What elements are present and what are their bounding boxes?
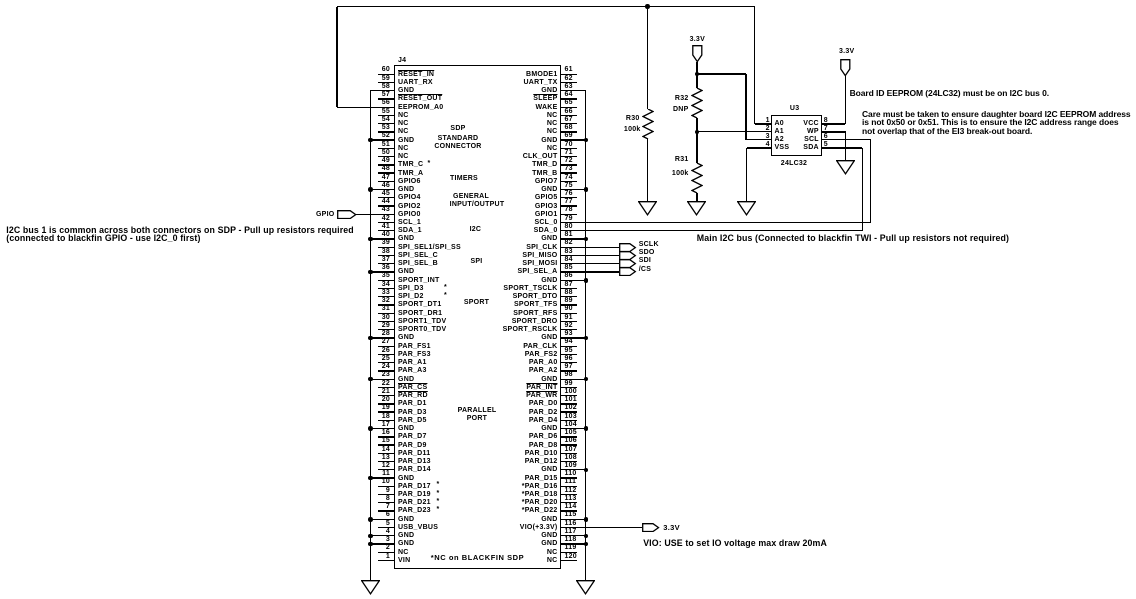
J4 pin 82 SPI_CLK bbox=[561, 247, 619, 248]
U3 pin 1 A0 bbox=[766, 117, 770, 124]
wire GPIO to pin 43 bbox=[356, 214, 395, 215]
J4 pin 54 NC bbox=[378, 123, 394, 124]
wire right GND bus vertical bbox=[585, 91, 586, 581]
J4 pin 93 GND bbox=[561, 337, 586, 338]
J4 pin 103 PAR_D4 bbox=[561, 420, 578, 421]
J4 pin 76 GPIO5 bbox=[561, 197, 578, 198]
junction 3.3V / R32 / A2 bbox=[695, 72, 700, 77]
J4 pin 70 NC bbox=[561, 148, 578, 149]
U3 pin 3 A2 bbox=[766, 133, 770, 140]
J4 pin 38 SPI_SEL_C bbox=[378, 255, 394, 256]
J4 pin 28 GND bbox=[370, 337, 394, 338]
junction top wire / R30 bbox=[645, 4, 650, 9]
note I2C bus 1 bbox=[6, 226, 353, 243]
J4 pin 5 USB_VBUS bbox=[378, 527, 394, 528]
label R31 bbox=[675, 156, 689, 163]
J4 pin 83 SPI_MISO bbox=[561, 255, 619, 256]
wire 3.3V down to VCC bbox=[845, 76, 846, 124]
J4 pin 49 TMR_C bbox=[378, 164, 394, 165]
wire junction to U3 pin 2 A1 bbox=[697, 131, 771, 132]
J4 pin 29 SPORT0_TDV bbox=[378, 329, 394, 330]
J4 pin 13 PAR_D13 bbox=[378, 461, 394, 462]
wire EEPROM_A0 to J4 pin 56 bbox=[337, 107, 395, 108]
J4 pin 113 *PAR_D20 bbox=[561, 502, 578, 503]
wire to U3 pin 1 A0 bbox=[755, 123, 771, 124]
J4 pin 10 PAR_D17 bbox=[378, 486, 394, 487]
J4 pin 26 PAR_FS3 bbox=[378, 354, 394, 355]
J4 pin 96 PAR_A0 bbox=[561, 362, 578, 363]
J4 pin 1 VIN bbox=[378, 560, 394, 561]
J4 pin 106 PAR_D8 bbox=[561, 444, 578, 445]
resistor R30 bbox=[642, 109, 654, 139]
J4 pin 95 PAR_FS2 bbox=[561, 354, 578, 355]
refdes U3 bbox=[790, 105, 799, 112]
J4 pin 109 GND bbox=[561, 469, 586, 470]
resistor R31 bbox=[691, 163, 703, 193]
J4 pin 64 SLEEP bbox=[561, 98, 578, 99]
J4 pin 27 PAR_FS1 bbox=[378, 346, 394, 347]
junction left GND bus pin 11 bbox=[368, 476, 373, 481]
J4 pin 85 SPI_SEL_A bbox=[561, 271, 619, 272]
J4 pin 99 PAR_INT bbox=[561, 387, 578, 388]
J4 pin 35 SPORT_INT bbox=[378, 280, 394, 281]
junction right GND bus pin 115 bbox=[584, 517, 589, 522]
wire A2 vertical bbox=[745, 74, 746, 140]
wire R31 top bbox=[696, 132, 697, 163]
J4 pin 6 GND bbox=[370, 519, 394, 520]
J4 pin 84 SPI_MOSI bbox=[561, 263, 619, 264]
J4 pin 111 *PAR_D16 bbox=[561, 486, 578, 487]
J4 pin 41 SDA_1 bbox=[378, 230, 394, 231]
J4 pin 90 SPORT_RFS bbox=[561, 313, 578, 314]
junction right GND bus pin 98 bbox=[584, 377, 589, 382]
J4 pin 20 PAR_D1 bbox=[378, 403, 394, 404]
label GENERAL INPUT/OUTPUT bbox=[391, 193, 551, 200]
ground WP bbox=[836, 160, 855, 175]
wire R30 top bbox=[647, 7, 648, 109]
note VIO bbox=[643, 539, 827, 547]
junction right GND bus pin 69 bbox=[584, 138, 589, 143]
J4 pin 77 GPIO3 bbox=[561, 205, 578, 206]
J4 pin 16 PAR_D7 bbox=[378, 436, 394, 437]
J4 pin 15 PAR_D9 bbox=[378, 444, 394, 445]
connector J4 body bbox=[394, 65, 562, 569]
ground VSS bbox=[737, 201, 756, 216]
J4 pin 17 GND bbox=[370, 428, 394, 429]
J4 pin 86 GND bbox=[561, 280, 586, 281]
wire left GND bus vertical bbox=[370, 91, 371, 581]
J4 pin 120 NC bbox=[561, 560, 578, 561]
wire WP down bbox=[845, 132, 846, 161]
port SDO bbox=[619, 251, 637, 260]
J4 pin 47 GPIO6 bbox=[378, 181, 394, 182]
J4 pin 94 PAR_CLK bbox=[561, 346, 578, 347]
label SPORT bbox=[397, 299, 557, 306]
junction right GND bus pin 81 bbox=[584, 237, 589, 242]
note Care must be taken bbox=[862, 110, 1131, 135]
wire R32 top bbox=[696, 74, 697, 88]
J4 pin 97 PAR_A2 bbox=[561, 370, 578, 371]
J4 pin 60 RESET_IN bbox=[378, 74, 394, 75]
junction left GND bus pin 3 bbox=[368, 542, 373, 547]
J4 pin 57 RESET_OUT bbox=[378, 98, 394, 99]
J4 pin 69 GND bbox=[561, 139, 586, 140]
J4 pin 98 GND bbox=[561, 379, 586, 380]
port SCLK bbox=[619, 243, 637, 252]
junction left GND bus pin 4 bbox=[368, 534, 373, 539]
U3 pin 7 WP bbox=[824, 125, 828, 132]
J4 pin 11 GND bbox=[370, 477, 394, 478]
ground R30 bbox=[638, 201, 657, 216]
ground right bus bbox=[576, 580, 595, 595]
J4 pin 100 PAR_WR bbox=[561, 395, 578, 396]
refdes J4 bbox=[398, 57, 406, 64]
J4 pin 9 PAR_D19 bbox=[378, 494, 394, 495]
J4 pin 46 GND bbox=[370, 189, 394, 190]
wire SDA down bbox=[862, 148, 863, 231]
wire VCC bbox=[822, 123, 846, 124]
wire R30 bottom bbox=[647, 139, 648, 202]
wire EEPROM_A0 vertical left bbox=[336, 7, 337, 108]
J4 pin 75 GND bbox=[561, 189, 586, 190]
J4 pin 91 SPORT_DRO bbox=[561, 321, 578, 322]
U3 pin 2 A1 bbox=[766, 125, 770, 132]
J4 pin 66 NC bbox=[561, 115, 578, 116]
label R32 bbox=[675, 95, 689, 102]
J4 pin 62 UART_TX bbox=[561, 82, 578, 83]
J4 pin 101 PAR_D0 bbox=[561, 403, 578, 404]
label 24LC32 bbox=[781, 160, 807, 167]
U3 pin 6 SCL bbox=[824, 133, 828, 140]
J4 pin 8 PAR_D21 bbox=[378, 502, 394, 503]
wire WP bbox=[822, 131, 846, 132]
J4 pin 33 SPI_D2 bbox=[378, 296, 394, 297]
wire R32 bottom bbox=[696, 118, 697, 132]
wire R31 bottom bbox=[696, 193, 697, 202]
J4 pin 116 VIO(+3.3V) bbox=[561, 527, 643, 528]
junction left GND bus pin 17 bbox=[368, 426, 373, 431]
J4 pin 44 GPIO2 bbox=[378, 205, 394, 206]
junction left GND bus pin 23 bbox=[368, 377, 373, 382]
resistor R32 bbox=[691, 88, 703, 118]
J4 pin 34 SPI_D3 bbox=[378, 288, 394, 289]
J4 pin 22 PAR_CS bbox=[378, 387, 394, 388]
J4 pin 7 PAR_D23 bbox=[378, 510, 394, 511]
J4 pin 65 WAKE bbox=[561, 107, 578, 108]
J4 pin 21 PAR_RD bbox=[378, 395, 394, 396]
label SDP STANDARD CONNECTOR bbox=[378, 125, 538, 132]
U3 pin 4 VSS bbox=[766, 141, 770, 148]
wire 3.3V to junction bbox=[696, 62, 697, 74]
label SPI bbox=[397, 258, 557, 265]
wire 3.3V to A2 horizontal bbox=[697, 73, 746, 74]
junction right GND bus pin 118 bbox=[584, 542, 589, 547]
junction left GND bus pin 6 bbox=[368, 517, 373, 522]
junction right GND bus pin 86 bbox=[584, 278, 589, 283]
J4 pin 56 EEPROM_A0 bbox=[378, 107, 394, 108]
junction left GND bus pin 40 bbox=[368, 237, 373, 242]
note Main I2C bus bbox=[697, 234, 1009, 242]
junction right GND bus pin 75 bbox=[584, 187, 589, 192]
J4 pin 12 PAR_D14 bbox=[378, 469, 394, 470]
J4 pin 71 CLK_OUT bbox=[561, 156, 578, 157]
wire SCL down bbox=[870, 140, 871, 223]
J4 pin 110 PAR_D15 bbox=[561, 477, 578, 478]
J4 pin 3 GND bbox=[370, 543, 394, 544]
J4 pin 55 NC bbox=[378, 115, 394, 116]
J4 pin 63 GND bbox=[561, 90, 586, 91]
J4 pin 45 GPIO4 bbox=[378, 197, 394, 198]
J4 pin 42 SCL_1 bbox=[378, 222, 394, 223]
J4 pin 88 SPORT_DTO bbox=[561, 296, 578, 297]
J4 pin 19 PAR_D3 bbox=[378, 411, 394, 412]
wire VSS down bbox=[746, 148, 747, 202]
label I2C bbox=[395, 226, 555, 233]
J4 pin 74 GPIO7 bbox=[561, 181, 578, 182]
label PARALLEL PORT bbox=[397, 407, 557, 414]
junction right GND bus pin 109 bbox=[584, 468, 589, 473]
J4 pin 52 GND bbox=[370, 139, 394, 140]
J4 pin 32 SPORT_DT1 bbox=[378, 304, 394, 305]
junction R32 / R31 / A1 bbox=[695, 130, 700, 135]
J4 pin 53 NC bbox=[378, 131, 394, 132]
J4 pin 50 NC bbox=[378, 156, 394, 157]
power 3.3V (U3 VCC) bbox=[840, 59, 851, 77]
wire EEPROM_A0 top horizontal bbox=[337, 6, 755, 7]
J4 pin 51 NC bbox=[378, 148, 394, 149]
J4 pin 24 PAR_A3 bbox=[378, 370, 394, 371]
J4 pin 72 TMR_D bbox=[561, 164, 578, 165]
J4 pin 79 SCL_0 bbox=[561, 222, 871, 223]
J4 pin 48 TMR_A bbox=[378, 172, 394, 173]
J4 pin 68 NC bbox=[561, 131, 578, 132]
J4 pin 92 SPORT_RSCLK bbox=[561, 329, 578, 330]
wire EEPROM_A0 vertical right bbox=[754, 7, 755, 124]
wire U3 pin 4 VSS bbox=[747, 147, 771, 148]
J4 pin 43 GPIO0 bbox=[378, 214, 394, 215]
label TIMERS bbox=[384, 175, 544, 182]
junction left GND bus pin 46 bbox=[368, 187, 373, 192]
J4 pin 23 GND bbox=[370, 379, 394, 380]
J4 pin 114 *PAR_D22 bbox=[561, 510, 578, 511]
junction right GND bus pin 117 bbox=[584, 534, 589, 539]
junction right GND bus pin 104 bbox=[584, 426, 589, 431]
J4 pin 78 GPIO1 bbox=[561, 214, 578, 215]
J4 pin 108 PAR_D12 bbox=[561, 461, 578, 462]
junction right GND bus pin 93 bbox=[584, 336, 589, 341]
J4 pin 73 TMR_B bbox=[561, 172, 578, 173]
port GPIO bbox=[337, 210, 357, 219]
J4 pin 25 PAR_A1 bbox=[378, 362, 394, 363]
J4 pin 80 SDA_0 bbox=[561, 230, 863, 231]
label R31 100k bbox=[672, 170, 689, 177]
J4 pin 36 GND bbox=[370, 271, 394, 272]
J4 pin 39 SPI_SEL1/SPI_SS bbox=[378, 247, 394, 248]
J4 pin 102 PAR_D2 bbox=[561, 411, 578, 412]
junction left GND bus pin 52 bbox=[368, 138, 373, 143]
J4 pin 112 *PAR_D18 bbox=[561, 494, 578, 495]
wire to U3 pin 3 A2 bbox=[746, 139, 771, 140]
J4 pin 89 SPORT_TFS bbox=[561, 304, 578, 305]
J4 pin 59 UART_RX bbox=[378, 82, 394, 83]
J4 pin 87 SPORT_TSCLK bbox=[561, 288, 578, 289]
J4 pin 118 GND bbox=[561, 543, 586, 544]
J4 pin 14 PAR_D11 bbox=[378, 453, 394, 454]
J4 pin 107 PAR_D10 bbox=[561, 453, 578, 454]
ground R31 bbox=[687, 201, 706, 216]
J4 pin 115 GND bbox=[561, 519, 586, 520]
J4 pin 31 SPORT_DR1 bbox=[378, 313, 394, 314]
power 3.3V (R32) bbox=[692, 45, 703, 63]
J4 pin 18 PAR_D5 bbox=[378, 420, 394, 421]
port /CS bbox=[619, 267, 637, 276]
IC U3 24LC32 body bbox=[771, 115, 823, 156]
J4 pin 40 GND bbox=[370, 238, 394, 239]
J4 pin 104 GND bbox=[561, 428, 586, 429]
port 3.3V (VIO) bbox=[642, 523, 660, 532]
J4 pin 30 SPORT1_TDV bbox=[378, 321, 394, 322]
U3 pin 8 VCC bbox=[824, 117, 828, 124]
U3 pin 5 SDA bbox=[824, 141, 828, 148]
note Board ID EEPROM bbox=[850, 89, 1049, 97]
port SDI bbox=[619, 259, 637, 268]
ground left bus bbox=[361, 580, 380, 595]
label R32 DNP bbox=[673, 106, 689, 113]
J4 pin 81 GND bbox=[561, 238, 586, 239]
J4 pin 37 SPI_SEL_B bbox=[378, 263, 394, 264]
J4 pin 2 NC bbox=[378, 552, 394, 553]
J4 pin 58 GND bbox=[370, 90, 394, 91]
wire SDA bbox=[822, 147, 863, 148]
note *NC on BLACKFIN SDP bbox=[431, 554, 524, 562]
junction left GND bus pin 28 bbox=[368, 336, 373, 341]
label R30 bbox=[626, 115, 640, 122]
J4 pin 119 NC bbox=[561, 552, 578, 553]
wire SCL bbox=[822, 139, 871, 140]
J4 pin 67 NC bbox=[561, 123, 578, 124]
junction left GND bus pin 36 bbox=[368, 270, 373, 275]
J4 pin 4 GND bbox=[370, 535, 394, 536]
J4 pin 61 BMODE1 bbox=[561, 74, 578, 75]
label R30 100k bbox=[624, 126, 641, 133]
J4 pin 105 PAR_D6 bbox=[561, 436, 578, 437]
J4 pin 117 GND bbox=[561, 535, 586, 536]
